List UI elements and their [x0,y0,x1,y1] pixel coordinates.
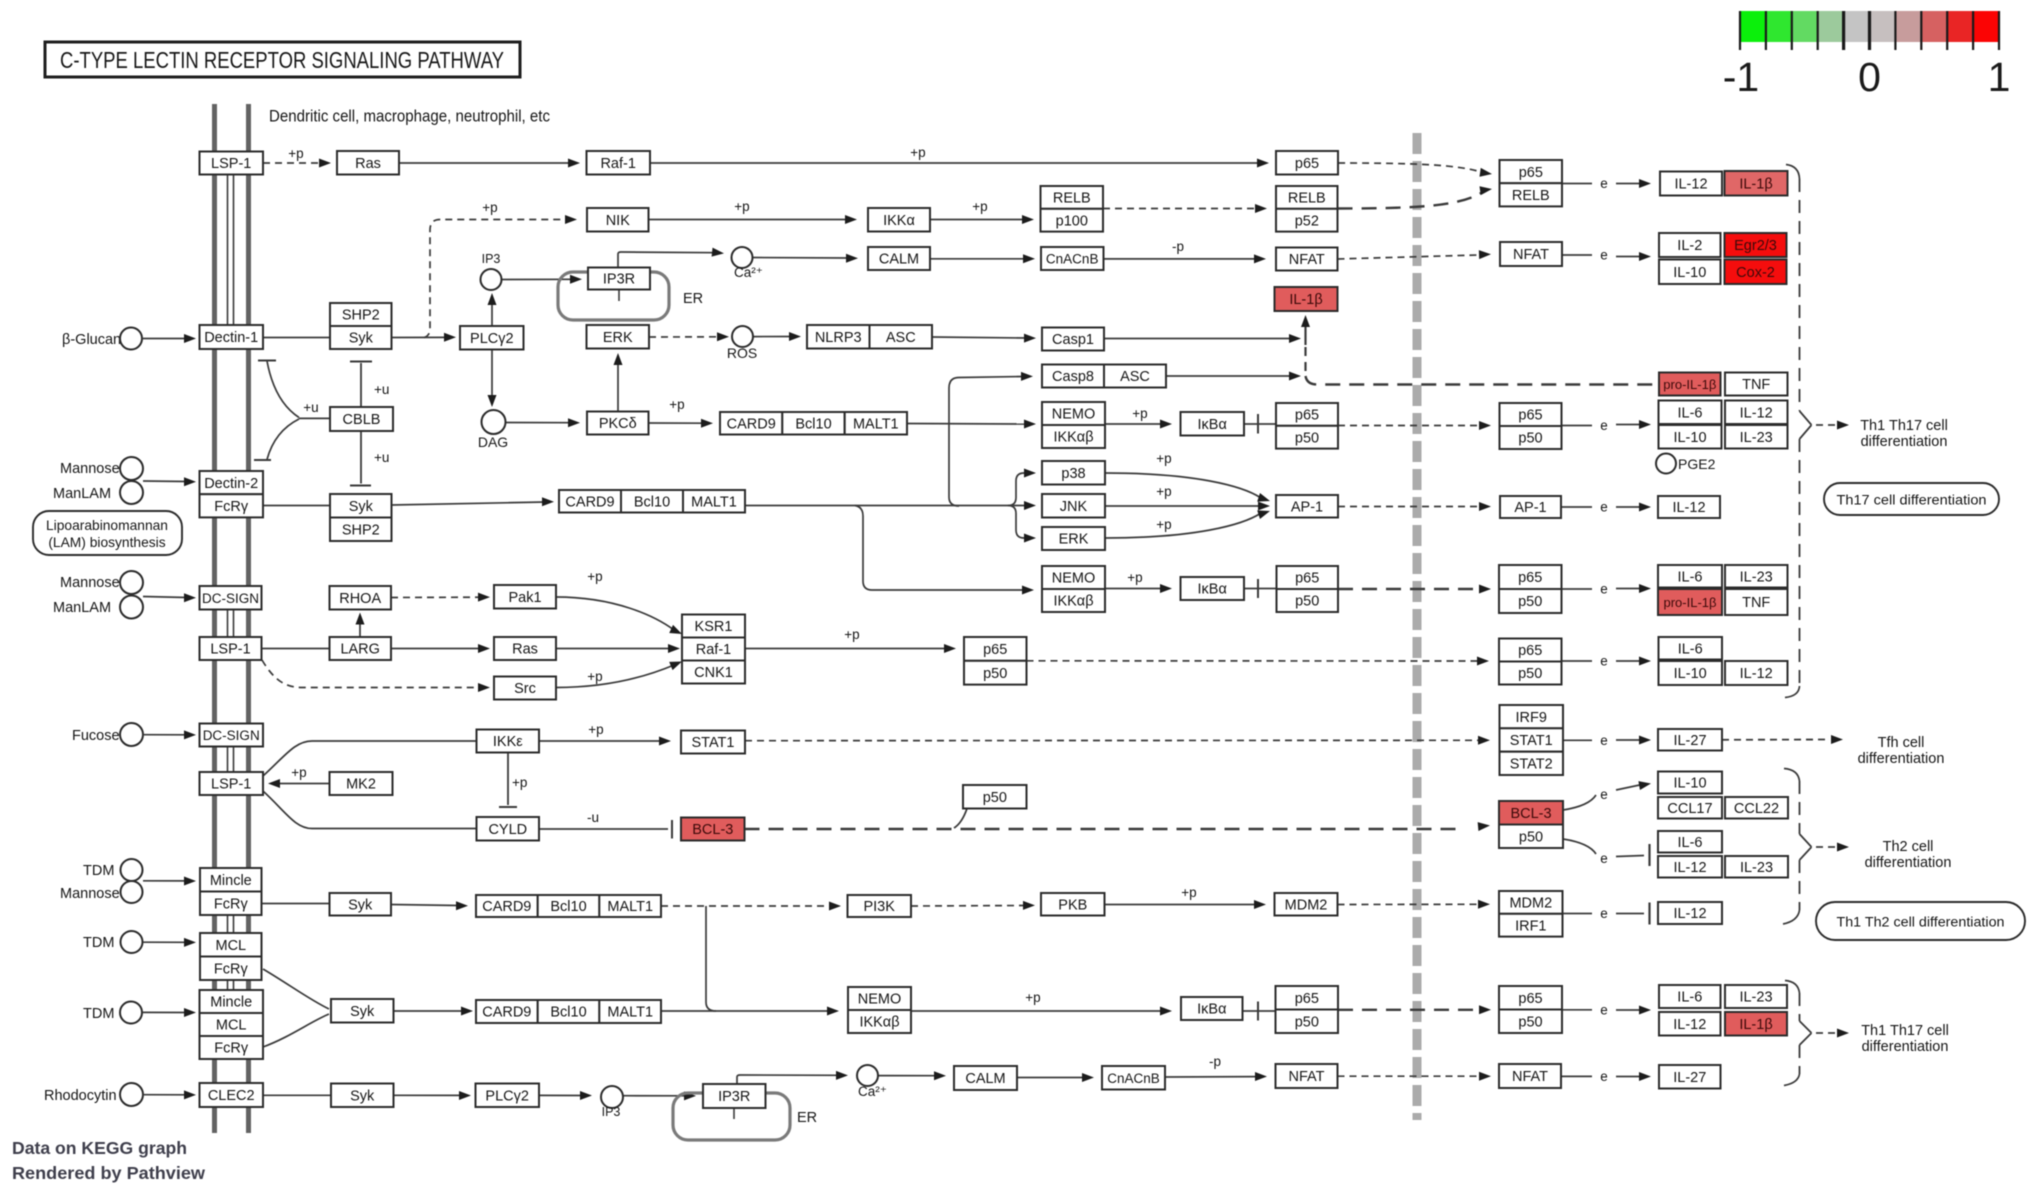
wire Casp1 to IL-1b junction [1104,338,1291,340]
svg-text:LSP-1: LSP-1 [211,777,251,793]
complex RELB p100 [1041,186,1104,209]
wire NFAT to nucleus dashed [1338,255,1479,259]
svg-text:CYLD: CYLD [488,822,527,838]
svg-text:NEMO: NEMO [1052,407,1096,423]
molecule circle IP3 row1 [481,269,502,290]
ligand circle beta-Glucan [120,328,142,350]
svg-text:MCL: MCL [215,938,246,954]
svg-text:Ras: Ras [512,642,538,658]
gene Syk d [331,999,394,1023]
wire STAT1 to IRF9 complex dashed [745,739,1478,741]
complex MDM2 IRF1 nuclear [1499,891,1563,914]
wire PLCgamma2 up to IP3 [491,297,493,326]
svg-text:IL-23: IL-23 [1740,570,1773,586]
molecule circle Ca2+ row1 [732,247,753,268]
title box C-TYPE LECTIN RECEPTOR SIGNALING PATHWAY [45,42,520,77]
svg-text:Pak1: Pak1 [508,590,541,606]
svg-text:PKCδ: PKCδ [599,416,637,432]
complex KSR1 Raf-1 CNK1 [682,615,745,638]
rounded note Th17 cell differentiation [1824,483,1999,515]
svg-text:Th17 cell differentiation: Th17 cell differentiation [1837,493,1987,508]
svg-text:Mannose: Mannose [60,886,120,902]
nuclear membrane dashed gray line [1413,133,1422,1120]
complex RELB p52 [1276,186,1338,209]
svg-text:RELB: RELB [1053,191,1091,207]
svg-text:p65: p65 [1295,571,1319,587]
export wire p65 RELB to IL-12 IL-1b [1562,183,1592,185]
svg-text:+p: +p [910,145,925,160]
svg-text:IL-23: IL-23 [1739,990,1772,1006]
svg-text:STAT2: STAT2 [1510,757,1553,773]
wire TDM to MCL [143,941,187,943]
cytokine IL-23 d [1725,985,1787,1008]
svg-text:Rendered by Pathview: Rendered by Pathview [12,1163,205,1183]
cytokine CCL22 [1725,797,1788,819]
svg-text:+p: +p [587,669,602,684]
wire p65 p50 4 to nucleus heavy dashed [1338,1009,1478,1011]
receptor DC-SIGN [200,586,262,610]
complex p65 p50 a [1276,403,1338,426]
export wire p65 p50 n1 to cytokines [1562,425,1592,427]
cytokine IL-27 b [1659,1065,1721,1089]
cytokine IL-10 d [1658,772,1722,794]
cytokine IL-23 a [1725,425,1788,449]
svg-text:p50: p50 [1519,830,1543,846]
svg-text:STAT1: STAT1 [1510,733,1553,749]
gene Src [494,677,556,700]
ligand circle Mannose row2 [120,457,143,480]
wire NIK to IKKalpha +p [649,219,848,221]
svg-text:IL-12: IL-12 [1740,666,1773,682]
wire ligands to Dectin-2 [143,480,187,483]
gene CALM b [954,1066,1017,1090]
svg-text:p50: p50 [1295,594,1319,610]
wire Dectin-1 to Syk [263,337,330,339]
svg-text:IKKαβ: IKKαβ [1053,594,1093,610]
legend color scale bar [1740,11,1766,42]
svg-text:SHP2: SHP2 [342,308,380,324]
svg-text:KSR1: KSR1 [695,619,733,635]
svg-text:+p: +p [482,200,497,215]
wire DAG to PKCdelta [506,422,571,424]
svg-text:IL-27: IL-27 [1673,1070,1706,1086]
svg-text:e: e [1600,500,1608,515]
svg-text:-p: -p [1172,239,1184,254]
gene Raf-1 a [587,151,651,175]
svg-text:IP3: IP3 [602,1105,621,1119]
svg-text:Syk: Syk [348,898,373,914]
svg-text:CALM: CALM [879,252,919,268]
bracket 1 arrow to Th1 Th17 text [1816,424,1836,426]
ligand circle Mannose row4 [121,881,143,903]
svg-text:TDM: TDM [83,1006,114,1022]
wire JNK to AP-1 +p [1105,505,1259,507]
svg-text:Mannose: Mannose [60,575,120,591]
wire Syk3 to CARD9 row3 [391,905,459,906]
svg-text:NLRP3: NLRP3 [815,330,862,346]
svg-text:differentiation: differentiation [1865,855,1952,871]
branch split to p38 JNK ERK [1008,473,1028,506]
branch down to NEMO row2 [855,506,1025,591]
junction dashed vertical to IL-1b [1304,345,1306,371]
bracket 1 dashed group Th1 Th17 [1786,165,1800,180]
ligand circle TDM row5 [121,931,143,953]
svg-text:IL-1β: IL-1β [1739,1017,1772,1033]
export wire AP-1n to IL-12 [1562,506,1592,508]
gene IKKe [477,730,540,753]
wire LSP-1c down to CYLD [263,791,476,829]
svg-text:Src: Src [514,681,536,697]
svg-text:Th1 Th17 cell: Th1 Th17 cell [1860,418,1948,434]
svg-text:pro-IL-1β: pro-IL-1β [1664,595,1717,610]
cytokine IL-12 f [1658,902,1722,924]
svg-text:Syk: Syk [349,331,374,347]
svg-text:IKKα: IKKα [883,213,915,229]
complex Casp8 ASC [1042,365,1104,388]
wire IkBa to p65 p50 row1 with tee [1244,423,1276,425]
gene Ras a [337,151,399,175]
wire RELB p52 to nucleus heavy dashed [1338,193,1482,209]
complex p65 RELB nuclear [1500,160,1563,183]
svg-text:Bcl10: Bcl10 [550,899,586,915]
gene PKCdelta [587,412,649,435]
svg-text:CCL22: CCL22 [1734,801,1779,817]
gene ERK b [1042,527,1105,550]
svg-text:0: 0 [1858,54,1881,100]
gene MK2 [330,772,393,795]
svg-text:NIK: NIK [606,213,631,229]
gene Syk e [331,1084,394,1108]
svg-text:+p: +p [587,569,602,584]
wire p65 p50 row2 to nucleus heavy dashed [1338,588,1478,590]
svg-text:BCL-3: BCL-3 [1510,806,1551,822]
export wire p65 p50 n2 to cytokines [1562,588,1592,590]
gene IKKalpha [868,208,930,232]
wire MALT1 to NEMO row1 [907,423,1027,426]
cytokine IL-12 d [1725,661,1788,685]
gene CBLB [330,407,393,431]
svg-text:Syk: Syk [350,1004,375,1020]
cytokine IL-23 b [1725,565,1788,588]
wire LARG to RHOA up [359,616,361,637]
membrane connector pair LSP-1 to Dectin-1 [227,175,229,326]
svg-text:e: e [1600,733,1608,748]
svg-text:IL-10: IL-10 [1673,265,1706,281]
gene IkBa d [1181,997,1243,1020]
complex CARD9 Bcl10 MALT1 b [559,490,621,513]
ligand circle Rhodocytin [120,1083,143,1106]
svg-text:differentiation: differentiation [1861,434,1948,450]
wire BCL-3 to nucleus heavy dashed [745,828,1463,830]
export wire IRF9 STAT to IL-27 [1562,739,1592,741]
svg-text:-p: -p [1209,1054,1221,1069]
wire AP-1 to nucleus dashed [1338,506,1478,508]
complex p65 p50 nuclear 1 [1500,403,1562,426]
wire p38 to AP-1 +p [1105,473,1261,498]
molecule circle IP3 b [601,1086,623,1108]
wire MALT1 row3 to PI3K dashed [661,905,832,907]
svg-text:p65: p65 [1519,165,1543,181]
export wire NFATn to IL-2 IL-10 [1562,254,1592,256]
svg-text:ER: ER [797,1110,817,1126]
cytokine TNF a [1725,373,1788,396]
svg-text:ManLAM: ManLAM [53,486,111,502]
svg-text:Mincle: Mincle [210,873,252,889]
svg-text:Casp8: Casp8 [1052,369,1094,385]
cytokine TNF b [1725,589,1788,615]
svg-text:Syk: Syk [350,1089,375,1105]
molecule circle Ca2+ b [857,1065,878,1086]
cytokine IL-12 c [1658,496,1720,518]
wire PLCg2b to IP3 b [539,1094,584,1096]
svg-text:(LAM) biosynthesis: (LAM) biosynthesis [48,535,165,550]
svg-text:p65: p65 [1295,991,1319,1007]
svg-text:-1: -1 [1723,54,1759,100]
svg-text:Fucose: Fucose [72,728,120,744]
svg-text:Dectin-2: Dectin-2 [204,476,258,492]
wire p65 p50 row1 to nucleus dashed [1338,425,1478,427]
svg-text:p65: p65 [983,642,1007,658]
ligand circle Mannose row3 [120,571,143,594]
receptor Mincle MCL FcRg [200,990,264,1013]
cytokine IL-12 e [1658,856,1722,878]
legend tick marks [1739,11,1741,50]
gene NFAT nuclear b [1499,1064,1561,1088]
cytokine Cox-2 [1725,260,1787,285]
svg-text:IL-1β: IL-1β [1739,176,1772,192]
receptor CLEC2 [200,1083,264,1107]
gene STAT1 [681,731,745,754]
svg-text:1: 1 [1988,54,2011,100]
svg-text:β-Glucan: β-Glucan [62,332,121,348]
cytokine IL-2 [1659,233,1721,257]
svg-text:e: e [1600,654,1608,669]
svg-text:+p: +p [512,775,527,790]
svg-text:Mincle: Mincle [210,995,252,1011]
svg-text:e: e [1600,787,1608,802]
svg-text:ERK: ERK [1059,532,1089,548]
gene MDM2 [1275,893,1338,916]
svg-text:+p: +p [1132,406,1147,421]
wire Fucose to DC-SIGN b [143,734,187,736]
svg-text:Dectin-1: Dectin-1 [204,330,258,346]
svg-text:AP-1: AP-1 [1514,500,1546,516]
ligand circle TDM row4 [121,859,143,881]
wire FcRg4 slant down to Syk4 [263,969,329,1009]
receptor Dectin-1 [200,325,264,349]
ER compartment row bottom [673,1093,790,1140]
svg-text:p65: p65 [1295,156,1319,172]
gene p50 float [963,785,1027,809]
receptor Dectin-2 FcRg [200,471,264,494]
svg-text:FcRγ: FcRγ [214,499,249,515]
wire CnACnB2 to NFAT2 -p [1165,1076,1257,1078]
svg-text:ROS: ROS [727,345,757,361]
svg-text:RHOA: RHOA [339,591,381,607]
svg-text:ER: ER [683,291,703,307]
svg-text:MCL: MCL [216,1018,247,1034]
wire CLEC2 to Syk5 [263,1094,331,1096]
svg-text:CnACnB: CnACnB [1107,1071,1160,1086]
svg-text:CARD9: CARD9 [482,899,531,915]
wire CYLD to BCL-3 -u with tee [539,828,668,830]
complex p65 p50 b [1277,566,1339,589]
svg-text:Raf-1: Raf-1 [600,156,635,172]
svg-text:TNF: TNF [1742,595,1770,611]
gene p65 top [1276,151,1338,175]
svg-text:IKKε: IKKε [493,734,523,750]
svg-text:+p: +p [669,397,684,412]
membrane connector pair MCL to Mincle2 [227,980,229,990]
gene CnACnB a [1041,247,1104,270]
svg-text:e: e [1600,176,1608,191]
wire beta-Glucan to Dectin-1 [142,338,187,340]
svg-text:Ras: Ras [355,156,381,172]
svg-text:Casp1: Casp1 [1052,332,1094,348]
svg-text:Bcl10: Bcl10 [550,1005,586,1021]
brace split to Casp8 and down [949,377,1024,424]
gene PKB [1041,893,1105,916]
ligand circle TDM row6 [120,1002,142,1024]
export arc BCL-3 down to IL-6 inhibit [1563,839,1596,854]
svg-text:Th1 Th17 cell: Th1 Th17 cell [1861,1023,1949,1039]
inhibit wire CBLB up to Syk +u [360,363,362,407]
gene Pak1 [494,585,556,609]
svg-text:p38: p38 [1061,466,1085,482]
svg-text:Th1 Th2 cell differentiation: Th1 Th2 cell differentiation [1837,915,2005,930]
svg-text:p50: p50 [1518,594,1542,610]
svg-text:DAG: DAG [478,434,508,450]
svg-text:IL-12: IL-12 [1740,405,1773,421]
svg-text:Egr2/3: Egr2/3 [1734,238,1777,254]
svg-text:CARD9: CARD9 [482,1005,531,1021]
complex NEMO IKKab b [1042,566,1105,589]
wire NEMO4 to IkBa4 long +p [911,1010,1163,1012]
wire Ca2+b to CALM2 [878,1075,937,1077]
svg-text:+u: +u [303,400,318,415]
svg-text:IP3R: IP3R [603,272,635,288]
svg-text:SHP2: SHP2 [342,523,380,539]
gene p38 [1042,461,1105,485]
svg-text:IL-6: IL-6 [1678,570,1703,586]
svg-text:+p: +p [734,199,749,214]
cytokine IL-12 b [1725,401,1788,425]
wire PKCdelta to CARD9 +p [649,422,705,424]
cytokine IL-12 g [1659,1012,1721,1036]
svg-text:NEMO: NEMO [1052,571,1096,587]
svg-text:IL-6: IL-6 [1678,835,1703,851]
gene CALM a [868,247,930,270]
svg-text:MALT1: MALT1 [607,1005,653,1021]
svg-text:IL-27: IL-27 [1673,733,1706,749]
svg-text:p50: p50 [1295,1015,1319,1031]
svg-text:p65: p65 [1518,570,1542,586]
complex p65 p50 nuclear 2 [1499,565,1562,589]
svg-text:IκBα: IκBα [1198,582,1227,598]
svg-text:differentiation: differentiation [1862,1039,1949,1055]
wire Ca2+ to CALM [753,257,849,260]
wire CALM2 to CnACnB2 [1017,1077,1085,1079]
svg-text:e: e [1600,248,1608,263]
wire LARG to Ras2 [391,648,481,650]
wire PI3K to PKB dashed [911,905,1026,908]
svg-text:p50: p50 [1518,1015,1542,1031]
svg-text:+p: +p [288,146,303,161]
receptor LSP-1 c [200,772,264,795]
membrane connector pair DC-SIGN to LSP-1 [227,610,229,638]
wire IkBa4 tee to p65 p50 4 [1243,1010,1276,1012]
wire NEMO row2 to IkBa +p [1105,588,1163,590]
svg-text:+p: +p [972,199,987,214]
gene NFAT b [1276,1064,1338,1088]
wire CALM to CnACnB [930,258,1026,260]
wire CnACnB to NFAT -p [1104,258,1257,260]
svg-text:FcRγ: FcRγ [214,897,249,913]
svg-text:Dendritic cell, macrophage, ne: Dendritic cell, macrophage, neutrophil, … [269,108,550,126]
wire RHOA to Pak1 dashed [391,596,480,598]
cytokine IL-27 a [1658,729,1722,751]
svg-text:IP3: IP3 [482,252,501,266]
svg-text:ASC: ASC [886,330,916,346]
svg-text:IL-12: IL-12 [1672,500,1705,516]
gene NFAT a [1276,248,1338,271]
svg-text:MALT1: MALT1 [691,494,737,510]
wire Raf-1 to p65 long +p [650,162,1260,164]
svg-text:IκBα: IκBα [1198,417,1227,433]
wire ERK to AP-1 +p [1105,513,1261,538]
svg-text:CNK1: CNK1 [694,665,733,681]
wire Syk to PLCgamma2 [392,336,448,338]
wire Casp8 ASC to junction [1166,375,1291,377]
export wire NFATn2 to IL-27 [1562,1075,1592,1077]
svg-text:p65: p65 [1518,408,1542,424]
svg-text:C-TYPE LECTIN RECEPTOR SIGNALI: C-TYPE LECTIN RECEPTOR SIGNALING PATHWAY [60,47,504,73]
svg-text:e: e [1600,851,1608,866]
svg-text:MDM2: MDM2 [1285,898,1328,914]
svg-text:e: e [1600,1069,1608,1084]
svg-text:IL-6: IL-6 [1677,990,1702,1006]
svg-text:Mannose: Mannose [60,461,120,477]
wire NEMO to IkBa row1 +p [1105,423,1163,425]
receptor LSP-1 b [200,637,262,660]
cell membrane outer line right [246,104,251,1133]
gene IP3R a [588,268,650,290]
svg-text:ERK: ERK [603,330,633,346]
receptor LSP-1 a [200,152,264,175]
wire IP3 to IP3R [502,278,575,280]
bracket 2 dashed group Th2 [1784,769,1800,782]
export wire MDM2 IRF1 to IL-12 inhibit [1562,913,1592,915]
svg-text:NFAT: NFAT [1513,247,1549,263]
export wire p65 p50 n4 to cytokines [1562,1009,1592,1011]
cytokine IL-1b a [1725,171,1788,196]
svg-text:+u: +u [374,450,389,465]
svg-text:PGE2: PGE2 [1678,456,1716,472]
gene CnACnB b [1102,1066,1165,1090]
gene PLCg2 b [476,1084,540,1108]
svg-text:Cox-2: Cox-2 [1736,265,1775,281]
svg-text:IL-12: IL-12 [1673,860,1706,876]
svg-text:TDM: TDM [83,863,114,879]
svg-text:PKB: PKB [1058,898,1087,914]
gene Syk c [330,893,392,916]
gene LARG [330,637,392,660]
wire IKKe to STAT1 +p [539,740,662,742]
complex CARD9 Bcl10 MALT1 d [476,1000,538,1023]
wire PLCgamma2 down to DAG [491,350,493,404]
svg-text:ManLAM: ManLAM [53,600,111,616]
svg-text:NEMO: NEMO [858,992,902,1008]
